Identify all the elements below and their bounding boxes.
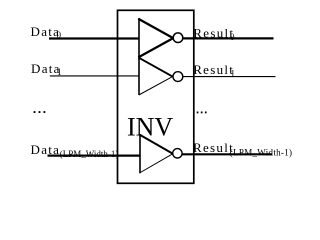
symbol outline box U1 xyxy=(118,10,194,183)
inversion bubble bit 0 xyxy=(173,33,183,43)
label Result(LPM_Width-1) xyxy=(193,140,292,157)
wire Data1 xyxy=(50,75,140,77)
svg-text:(LPM_Width-1): (LPM_Width-1) xyxy=(230,147,293,157)
inverter gate bit 1 xyxy=(138,57,172,95)
inverter gate bit 0 xyxy=(138,18,173,58)
inversion bubble bit LPM_Width-1 xyxy=(173,149,182,158)
label Result1 xyxy=(193,62,235,79)
svg-text:1: 1 xyxy=(57,67,62,77)
wire Result(LPM_Width-1) xyxy=(182,153,272,155)
ellipsis left xyxy=(34,111,46,113)
inversion bubble bit 1 xyxy=(173,72,183,82)
label Data(LPM_Width-1) xyxy=(31,142,119,159)
svg-text:INV: INV xyxy=(127,112,173,141)
inverter gate bit LPM_Width-1 xyxy=(139,134,173,173)
svg-text:(LPM_Width-1): (LPM_Width-1) xyxy=(60,149,119,159)
label Data0 xyxy=(31,24,62,40)
wire Data(LPM_Width-1) xyxy=(48,155,141,157)
svg-text:0: 0 xyxy=(230,32,235,42)
svg-text:1: 1 xyxy=(231,69,236,79)
wire Result0 xyxy=(183,37,274,39)
wire Result1 xyxy=(183,76,276,78)
label Data1 xyxy=(31,61,62,77)
svg-text:Result: Result xyxy=(193,62,234,77)
label INV xyxy=(127,112,173,141)
ellipsis right xyxy=(197,112,207,114)
svg-text:0: 0 xyxy=(57,30,62,40)
svg-text:Result: Result xyxy=(193,26,234,41)
label Result0 xyxy=(193,26,235,42)
svg-text:Data: Data xyxy=(31,142,61,157)
wire Data0 xyxy=(49,37,140,39)
svg-text:Result: Result xyxy=(193,140,234,155)
